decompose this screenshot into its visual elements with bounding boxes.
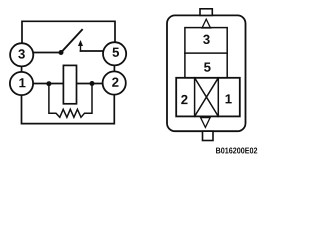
pin 2 terminal circle — [103, 71, 126, 94]
wire fixed contact to pin 5 — [81, 50, 104, 52]
connector J1 top tab — [200, 9, 212, 16]
connector J1 bottom tab — [203, 131, 214, 140]
coil L1 — [63, 65, 76, 103]
wire top bus from pin 3 to pin 5 — [22, 21, 115, 42]
wire pin 5 to pin 2 — [113, 54, 115, 83]
connector cavity 2 label — [181, 95, 187, 104]
wire bottom loop pin 1 to pin 2 — [22, 95, 115, 124]
resistor R1 parallel branch — [49, 86, 92, 117]
connector cavity 3 label — [203, 35, 210, 44]
node junction right of coil — [90, 81, 95, 86]
connector J1 outer body — [167, 15, 246, 131]
node junction left of coil — [46, 81, 51, 86]
pin 5 terminal circle — [103, 42, 126, 65]
pin 2 label — [112, 77, 118, 86]
connector cavity 5 label — [204, 63, 211, 72]
connector cavity 1 label — [226, 94, 232, 103]
pin 1 label — [19, 78, 25, 87]
connector J1 keyway box with X — [195, 78, 219, 117]
pin 3 terminal circle — [10, 43, 33, 66]
pin 3 label — [18, 49, 25, 58]
wire pin 3 to switch pivot — [32, 52, 61, 54]
connector J1 cavity box for 3 and 5 — [185, 28, 227, 78]
connector J1 cavity box for 2 and 1 — [176, 78, 240, 117]
pin 5 label — [112, 48, 119, 57]
connector J1 divider between cavity 3 and 5 — [185, 52, 227, 54]
switch SW1 fixed contact arrow — [78, 40, 83, 51]
pin 1 terminal circle — [10, 72, 33, 95]
figure number label B016200E02 — [216, 148, 257, 154]
switch SW1 movable arm — [61, 30, 82, 53]
connector J1 bottom index triangle — [201, 118, 211, 128]
connector J1 top index triangle — [202, 19, 211, 28]
wire coil bus pin 1 to pin 2 — [33, 83, 103, 85]
wire pin 3 to pin 1 — [21, 55, 23, 84]
node switch pivot junction — [59, 50, 64, 55]
